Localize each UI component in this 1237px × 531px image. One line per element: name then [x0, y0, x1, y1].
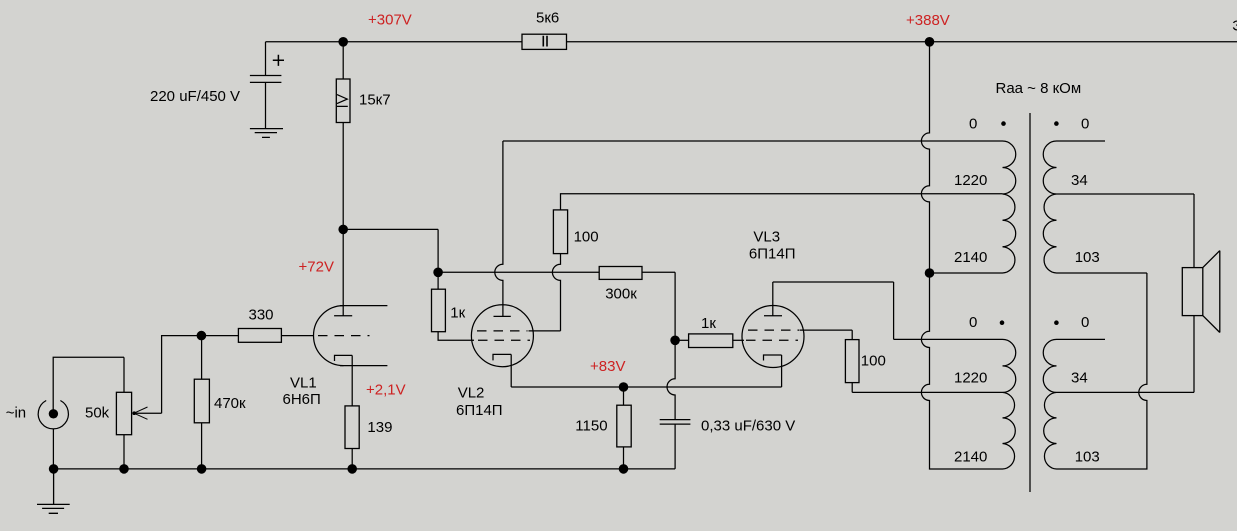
wire bus to R 15k7	[342, 42, 344, 79]
wire C3 to bottom bus	[674, 424, 676, 469]
tube VL1 grid dashes	[318, 335, 370, 337]
svg-text:+83V: +83V	[590, 358, 625, 375]
transformer T1 primary lower winding	[1003, 339, 1016, 469]
svg-text:470к: 470к	[214, 395, 246, 412]
wire secondary lower 0 tap open	[1057, 338, 1106, 340]
wire VL2 screen up with hop to R 100	[552, 254, 560, 331]
tube VL1 envelope arc	[314, 306, 344, 366]
resistor R12 5к6 body	[522, 34, 567, 49]
capacitor C1 220 uF/450 V plates	[250, 76, 282, 83]
tube VL3 anode plate	[764, 315, 782, 317]
svg-text:Э: Э	[1232, 18, 1237, 35]
transformer polarity dot primary lower	[1000, 320, 1005, 325]
wire R11 to lower primary 1220 tap	[852, 383, 1002, 393]
svg-text:5к6: 5к6	[536, 10, 559, 27]
svg-text:1к: 1к	[450, 305, 465, 322]
wire +83V cathode bus VL2-VL3	[511, 386, 781, 388]
wire +388V rail with hops, to lower 2140 tap	[921, 42, 1002, 469]
potentiometer R2 50k body	[116, 392, 131, 434]
svg-text:+2,1V: +2,1V	[366, 382, 406, 399]
wire 139 to bus	[351, 449, 353, 469]
wire upper 2140 tap	[930, 272, 1003, 274]
wire R9 to bottom bus	[623, 447, 625, 469]
ground under C1	[250, 129, 283, 138]
node grid junction 330/470k/wiper	[197, 331, 207, 341]
capacitor C3 0,33uF plates	[660, 420, 691, 425]
resistor R5 330 body	[238, 329, 281, 343]
svg-text:103: 103	[1075, 249, 1100, 266]
wire grid node to R 330	[201, 335, 238, 337]
svg-text:~in: ~in	[6, 405, 26, 422]
wire VL3 anode to lower primary 0 tap	[773, 282, 1003, 339]
tube VL2 cathode hook	[493, 354, 511, 360]
node junction bus / pot	[119, 464, 129, 474]
svg-text:VL1: VL1	[290, 375, 317, 392]
tube VL3 screen grid dashes	[748, 329, 799, 331]
node junction bus / jack	[49, 464, 59, 474]
wire top +307V/+388V bus	[266, 41, 1237, 43]
resistor R6 139 body	[345, 406, 359, 449]
wire wiper to grid node	[134, 336, 201, 414]
transformer polarity dot primary upper	[1001, 121, 1006, 126]
svg-text:VL3: VL3	[753, 229, 780, 246]
speaker BA1 box	[1182, 268, 1203, 316]
resistor R1 power mark V+I	[337, 95, 348, 107]
wire +83V node to R 1150	[623, 387, 625, 405]
svg-text:6П14П: 6П14П	[749, 246, 796, 263]
transformer T1 secondary lower winding	[1043, 339, 1056, 469]
wire secondary upper 103 tap	[1057, 272, 1147, 274]
wire 103 link down with hop to lower 103 tap	[1057, 273, 1147, 469]
resistor R12 power mark II	[543, 36, 547, 47]
svg-text:+388V: +388V	[906, 12, 950, 29]
potentiometer R2 wiper dot	[132, 411, 136, 415]
svg-text:0: 0	[969, 314, 977, 331]
wire junction to R 1k grid stopper VL2	[437, 272, 439, 289]
transformer T1 core	[1029, 113, 1031, 492]
wire VL2 cathode down to +83V bus	[510, 354, 512, 387]
wire node 675 down with hop over +83V bus to C3	[667, 340, 675, 419]
wire R8 to VL3 grid1	[733, 339, 744, 341]
wire C1 to ground	[265, 82, 267, 128]
svg-text:0: 0	[969, 116, 977, 133]
connector X1 input jack circle	[38, 401, 68, 429]
node +83V junction	[619, 382, 629, 392]
wire VL3 cathode down to +83V bus	[781, 355, 783, 387]
tube VL2 anode lead with hop up to transformer 0 tap	[495, 141, 503, 316]
wire R4 to VL2 grid1	[438, 332, 474, 341]
resistor R11 100 (VL3 screen) body	[845, 340, 859, 383]
transformer polarity dot secondary upper	[1054, 121, 1059, 126]
wire secondary upper 34 tap to speaker top	[1057, 194, 1195, 268]
svg-text:Raa ~ 8 кОм: Raa ~ 8 кОм	[996, 80, 1082, 97]
svg-text:100: 100	[861, 353, 886, 370]
svg-text:0: 0	[1081, 116, 1089, 133]
tube VL3 envelope circle	[742, 306, 804, 368]
tube VL1 anode plate	[334, 315, 352, 317]
svg-text:139: 139	[367, 419, 392, 436]
node junction 1k/300k VL3 grid	[670, 336, 680, 346]
node junction top bus / 15k7	[338, 37, 348, 47]
tube VL3 control grid dashes	[746, 339, 798, 341]
transformer polarity dot secondary lower	[1054, 320, 1059, 325]
wire bottom ground bus	[54, 468, 676, 470]
node junction bottom bus / 1150	[619, 464, 629, 474]
svg-text:1150: 1150	[575, 418, 607, 435]
svg-text:+72V: +72V	[299, 259, 334, 276]
capacitor C1 220uF lead from bus	[265, 42, 267, 76]
wire junction to 300k	[438, 271, 599, 273]
tube VL2 anode plate	[494, 315, 511, 317]
svg-text:15к7: 15к7	[359, 92, 391, 109]
wire secondary upper 0 tap open	[1057, 140, 1106, 142]
svg-text:1к: 1к	[701, 315, 716, 332]
wire VL3 screen lead to R 100	[800, 330, 853, 340]
svg-text:103: 103	[1075, 449, 1100, 466]
svg-text:1220: 1220	[954, 172, 987, 189]
potentiometer R2 wiper arrow	[134, 407, 148, 419]
svg-text:6П14П: 6П14П	[456, 402, 503, 419]
tube VL2 screen grid dashes	[477, 330, 528, 332]
node junction top bus / +388V rail	[925, 37, 935, 47]
wire jack shield to bottom bus	[52, 429, 54, 469]
wire R10 to primary 1220 tap	[561, 194, 1003, 210]
svg-text:300к: 300к	[605, 286, 637, 303]
wire node to R 1k VL3	[675, 339, 689, 341]
node junction bus / 470k	[197, 464, 207, 474]
wire R1 to +72V node	[342, 123, 344, 230]
tube VL1 envelope open edges	[340, 306, 387, 366]
tube VL3 anode lead	[772, 282, 774, 316]
resistor R3 470к body	[194, 379, 209, 423]
svg-text:VL2: VL2	[458, 385, 485, 402]
connector X1 center pin	[49, 409, 58, 418]
svg-text:6Н6П: 6Н6П	[283, 391, 321, 408]
wire VL1 cathode to R 139	[351, 355, 353, 406]
resistor R10 100 (VL2 screen) body	[553, 210, 567, 254]
wire +72V node to 300k branch	[343, 229, 438, 272]
svg-text:1220: 1220	[954, 370, 987, 387]
wire VL2 screen lead out	[529, 330, 561, 332]
tube VL1 anode lead	[342, 229, 344, 315]
tube VL2 control grid dashes	[478, 339, 530, 341]
svg-text:34: 34	[1071, 172, 1088, 189]
resistor R8 1к (VL3 grid) body	[689, 334, 733, 348]
wire 470k to bus	[201, 423, 203, 469]
node junction rail / upper 2140 tap	[925, 268, 935, 278]
node junction 438/272	[433, 268, 443, 278]
resistor R9 1150 body	[617, 405, 631, 447]
node junction bus / 139	[347, 464, 357, 474]
svg-text:50k: 50k	[85, 405, 110, 422]
transformer T1 secondary upper winding	[1043, 141, 1056, 273]
ground main	[37, 469, 70, 513]
wire 330 to VL1 grid	[281, 335, 313, 337]
svg-text:330: 330	[249, 307, 274, 324]
wire VL2 anode to primary 0 tap	[503, 140, 1003, 142]
transformer T1 primary upper winding	[1003, 141, 1016, 273]
resistor R7 300к body	[599, 267, 642, 280]
speaker BA1 cone	[1203, 251, 1220, 333]
wire pot top lead	[123, 357, 125, 392]
svg-text:34: 34	[1071, 370, 1088, 387]
svg-text:0,33 uF/630 V: 0,33 uF/630 V	[701, 418, 795, 435]
wire pot bottom to bus	[123, 435, 125, 469]
wire grid node to 470k	[201, 336, 203, 380]
node +72V junction	[338, 225, 348, 235]
svg-text:220 uF/450 V: 220 uF/450 V	[150, 88, 240, 105]
tube VL2 envelope circle	[471, 305, 533, 367]
svg-text:2140: 2140	[954, 449, 987, 466]
tube VL3 cathode hook	[764, 355, 782, 361]
resistor R4 1к (VL2 grid) body	[432, 289, 446, 332]
capacitor C1 polarity plus	[273, 55, 284, 66]
wire jack pin up to pot top	[53, 357, 124, 411]
svg-text:+307V: +307V	[368, 12, 412, 29]
svg-text:100: 100	[574, 229, 599, 246]
tube VL1 cathode hook	[335, 355, 353, 361]
wire secondary lower 34 tap to speaker bottom	[1057, 316, 1195, 393]
svg-text:0: 0	[1081, 314, 1089, 331]
wire 300k to node 675	[642, 272, 675, 340]
resistor R1 15к7 body	[336, 79, 350, 123]
svg-text:2140: 2140	[954, 249, 987, 266]
